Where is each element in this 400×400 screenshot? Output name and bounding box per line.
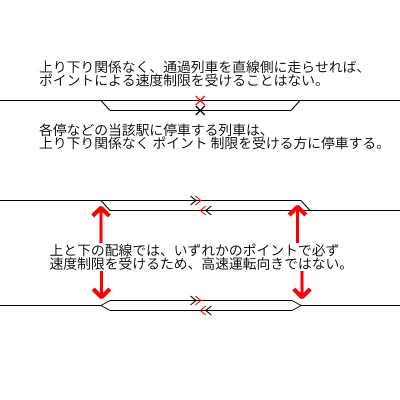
node: red down arrow at diagram3 left turnout: [93, 271, 110, 297]
wire: diagram3 left single track: [0, 305, 101, 307]
wire: diagram1 main line: [0, 100, 400, 102]
node: red X mark on diagram1 main line (no speed limit point): [196, 96, 205, 105]
node: diagram2 rightward direction chevrons (black+red) on upper track: [191, 196, 201, 205]
wire: diagram3 right single track: [301, 305, 400, 307]
wire: diagram3 lower track: [110, 310, 292, 312]
text: line C1 (bottom explanation line 1): [50, 244, 338, 257]
wire: diagram1 left turnout diagonal: [101, 101, 110, 111]
wire: diagram1 loop track: [110, 110, 291, 112]
node: diagram3 rightward direction chevrons (black+red) on upper track: [191, 296, 201, 305]
text: line A1 (top explanation line 1): [40, 60, 361, 73]
wire: diagram2 lower track: [110, 210, 400, 212]
wire: diagram2 upper track: [0, 200, 301, 202]
node: red up arrow at diagram2 right turnout: [289, 207, 306, 243]
wire: diagram3 left turnout lower diagonal: [101, 306, 110, 311]
wire: diagram3 right turnout upper diagonal: [292, 301, 301, 306]
node: red down arrow at diagram3 right turnout: [294, 271, 311, 297]
text: line B2 (middle explanation line 2): [40, 136, 381, 149]
node: black X mark on diagram1 loop track: [196, 106, 205, 115]
wire: diagram3 upper track: [110, 300, 292, 302]
text: line A2 (top explanation line 2): [40, 74, 320, 87]
wire: diagram2 right turnout diagonal: [301, 201, 310, 211]
text: line B1 (middle explanation line 1): [39, 123, 264, 136]
node: diagram3 leftward direction chevrons (red+black) on lower track: [200, 306, 211, 315]
text: line C2 (bottom explanation line 2): [50, 257, 344, 270]
wire: diagram3 right turnout lower diagonal: [292, 306, 301, 311]
node: diagram2 leftward direction chevrons (red+black) on lower track: [200, 206, 211, 215]
node: red up arrow at diagram2 left turnout: [93, 208, 110, 243]
wire: diagram2 left turnout diagonal: [101, 201, 110, 211]
wire: diagram3 left turnout upper diagonal: [101, 301, 110, 306]
wire: diagram1 right turnout diagonal: [291, 101, 300, 111]
